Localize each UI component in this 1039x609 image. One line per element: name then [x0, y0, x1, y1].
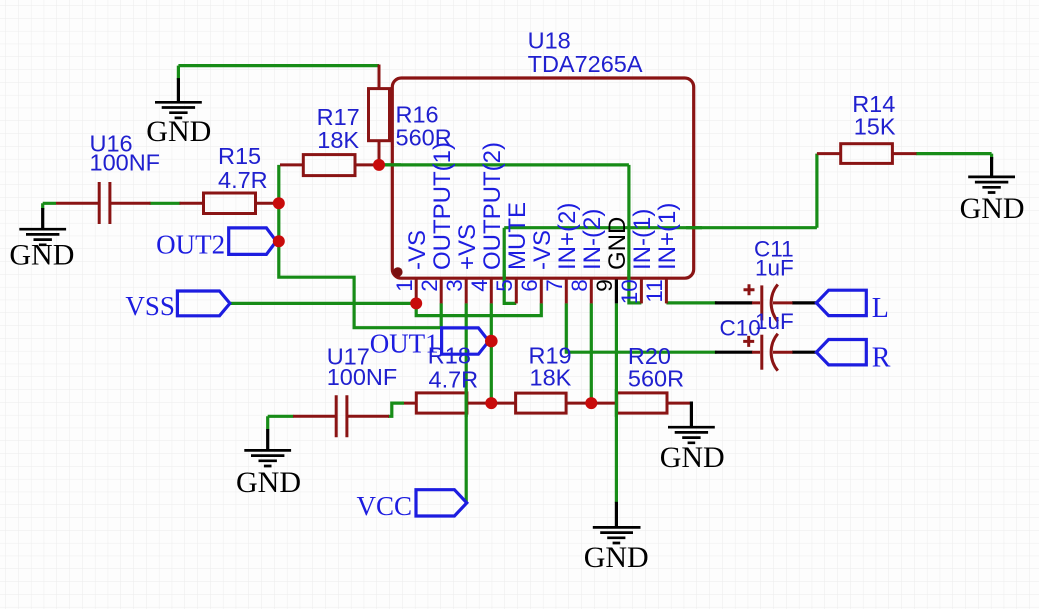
svg-text:1: 1 — [392, 279, 417, 292]
ground right of R20 — [660, 402, 725, 475]
wire overlay crossing IC left edge — [384, 163, 401, 166]
capacitor C10 1uF (polarized) — [720, 309, 794, 371]
svg-text:1uF: 1uF — [755, 309, 794, 334]
wire overlay crossing R20 left edge — [615, 389, 618, 417]
svg-text:18K: 18K — [530, 365, 572, 391]
port VSS — [125, 291, 230, 321]
wire overlay crossing IC bottom edge at x=504.2 — [503, 270, 506, 287]
wire pin 9 down to GND bottom — [615, 303, 618, 502]
wire R14 right to GND top-right — [916, 154, 992, 160]
wire black C10 right to R port — [792, 351, 816, 354]
junction R18/R19 — [485, 397, 497, 409]
resistor R18 4.7R — [404, 343, 491, 414]
resistor R19 18K — [491, 343, 591, 414]
svg-text:4: 4 — [467, 279, 492, 292]
resistor R16 560R (vertical) — [369, 65, 452, 166]
svg-text:IN-(2): IN-(2) — [579, 209, 606, 270]
U18 pin 2 (OUTPUT(1)) — [417, 142, 456, 303]
wire overlay crossing R18 right edge — [465, 389, 468, 417]
svg-text:OUT2: OUT2 — [156, 230, 225, 260]
svg-text:560R: 560R — [396, 125, 452, 151]
wire pin 11 to C11 — [666, 301, 716, 304]
resistor R20 560R — [591, 343, 691, 413]
wire overlay crossing IC right edge — [686, 226, 702, 229]
svg-text:GND: GND — [960, 192, 1025, 225]
svg-text:+VS: +VS — [454, 224, 481, 270]
capacitor C11 1uF (polarized) — [744, 237, 794, 322]
wire U17 left to GND mid-left — [268, 416, 294, 429]
svg-text:15K: 15K — [854, 113, 896, 139]
resistor R15 4.7R — [180, 143, 279, 213]
IC U18 origin dot — [393, 267, 403, 277]
svg-text:VSS: VSS — [125, 291, 175, 321]
svg-text:U18: U18 — [528, 28, 571, 54]
svg-text:8: 8 — [567, 279, 592, 292]
wire black C10 left — [715, 351, 753, 354]
ground mid-left (U17) — [236, 429, 301, 499]
resistor R17 18K — [280, 104, 379, 176]
svg-text:R17: R17 — [317, 104, 360, 130]
U18 pin 8 (IN-(2)) — [567, 209, 606, 304]
junction R16/R17/MUTE — [373, 159, 385, 171]
wire pin 7 down and right to C10 — [566, 303, 716, 352]
svg-text:OUTPUT(2): OUTPUT(2) — [479, 142, 506, 270]
capacitor U17 100NF — [293, 344, 397, 438]
wire GND top-left to R16 top — [178, 66, 379, 80]
svg-text:GND: GND — [660, 441, 725, 474]
wire pin 3 down to VCC — [465, 303, 468, 503]
svg-text:4.7R: 4.7R — [218, 167, 268, 193]
svg-text:IN+(2): IN+(2) — [554, 203, 581, 270]
svg-text:L: L — [872, 293, 889, 324]
svg-text:OUTPUT(1): OUTPUT(1) — [429, 142, 456, 270]
svg-text:9: 9 — [592, 279, 617, 292]
U18 pin 4 (OUTPUT(2)) — [467, 142, 506, 303]
svg-text:560R: 560R — [628, 366, 684, 392]
junction R15 right — [273, 197, 285, 209]
wire pin 1 to pin 6 — [416, 303, 541, 315]
U18 pin 6 (-VS) — [517, 230, 556, 303]
svg-text:GND: GND — [9, 239, 74, 272]
wire R16/R17 junction to node at x=628.9 — [379, 163, 629, 166]
svg-text:R15: R15 — [218, 143, 261, 169]
U18 pin 5 (MUTE) — [492, 202, 531, 303]
svg-text:IN-(1): IN-(1) — [629, 209, 656, 270]
U18 pin 3 (+VS) — [442, 224, 481, 303]
svg-text:-VS: -VS — [529, 230, 556, 270]
wire MUTE horizontal to R14 — [504, 226, 817, 229]
wire OUT2 net: R15 junction down and over to OUT1 area — [279, 165, 442, 328]
svg-text:VCC: VCC — [356, 491, 412, 521]
wire pin 8 down to R19/R20 junction — [590, 303, 593, 403]
wire overlay crossing IC bottom edge at x=628.9 — [627, 270, 630, 287]
svg-text:5: 5 — [492, 279, 517, 292]
svg-text:GND: GND — [604, 217, 631, 270]
wire U16 to R15 — [150, 202, 181, 205]
svg-text:TDA7265A: TDA7265A — [528, 51, 643, 77]
ground far-left (U16) — [9, 208, 74, 272]
svg-text:10: 10 — [617, 279, 642, 304]
junction pin 1 / VSS — [410, 297, 422, 309]
svg-text:4.7R: 4.7R — [429, 366, 479, 392]
svg-text:11: 11 — [642, 279, 667, 302]
svg-text:100NF: 100NF — [90, 149, 161, 175]
wire GND far-left to U16 — [43, 203, 56, 209]
U18 pin 7 (IN+(2)) — [542, 203, 581, 304]
svg-text:MUTE: MUTE — [504, 202, 531, 270]
resistor R14 15K — [817, 91, 917, 163]
svg-text:IN+(1): IN+(1) — [654, 203, 681, 270]
port VCC — [356, 490, 466, 521]
ground top-right (R14) — [960, 157, 1025, 225]
wire U17 right jog up to R18 — [388, 403, 404, 416]
wire node x=628.9 down to pin 10 jog — [629, 165, 642, 303]
wire black C11 right to L port — [792, 301, 816, 304]
svg-text:-VS: -VS — [404, 230, 431, 270]
wire pin 2 down to OUT1 corner — [440, 303, 443, 328]
svg-text:GND: GND — [236, 466, 301, 499]
wire MUTE jog down to pin 5 — [504, 228, 516, 304]
U18 pin 11 (IN+(1)) — [642, 203, 681, 304]
wire VSS to pin 1 — [230, 302, 416, 305]
svg-text:18K: 18K — [317, 127, 359, 153]
svg-text:7: 7 — [542, 279, 567, 292]
svg-text:R16: R16 — [396, 101, 439, 127]
wire R14 left lead down — [815, 154, 818, 228]
svg-text:1uF: 1uF — [755, 255, 794, 280]
U18 pin 1 (-VS) — [392, 230, 431, 303]
svg-text:6: 6 — [517, 279, 542, 292]
svg-text:GND: GND — [146, 115, 211, 148]
svg-text:OUT1: OUT1 — [370, 328, 439, 358]
junction R19/R20 — [585, 397, 597, 409]
capacitor U16 100NF — [56, 131, 160, 224]
U18 pin 10 (IN-(1)) — [617, 209, 656, 305]
port OUT1 — [370, 328, 489, 358]
svg-text:GND: GND — [584, 541, 649, 574]
wire black C11 left — [715, 301, 753, 304]
IC U18 TDA7265A body — [392, 78, 693, 278]
junction OUT2 tip — [273, 235, 285, 247]
junction OUT1 tip — [485, 335, 498, 348]
ground top-left (R16 net) — [146, 78, 211, 148]
port L — [816, 290, 888, 324]
U18 pin 9 (GND) black — [592, 217, 631, 304]
svg-text:3: 3 — [442, 279, 467, 292]
svg-text:2: 2 — [417, 279, 442, 292]
port OUT2 — [156, 228, 276, 260]
svg-text:100NF: 100NF — [327, 364, 398, 390]
svg-text:R: R — [872, 343, 891, 374]
ground bottom (pin 9) — [584, 502, 649, 574]
port R — [816, 340, 890, 374]
wire pin 4 down through OUT1 tip to R18/R19 junction — [490, 303, 493, 403]
